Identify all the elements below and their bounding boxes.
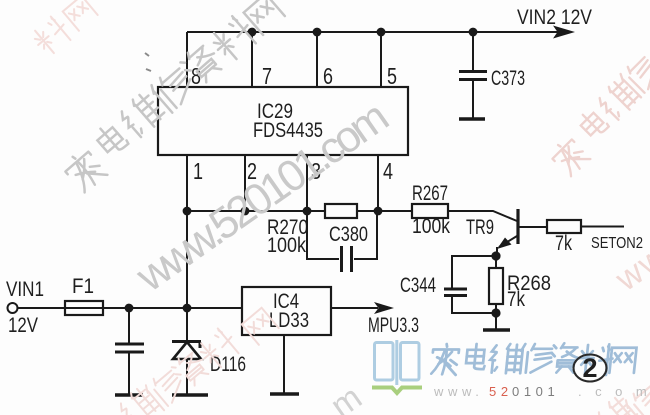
op IC29 FDS4435 box	[158, 87, 408, 155]
svg-text:R267: R267	[412, 182, 448, 205]
wire pin3 stub	[306, 155, 308, 211]
junction dot D116	[183, 304, 192, 313]
junction dot R268 bottom	[491, 308, 500, 317]
wire pin5 stub	[380, 32, 382, 87]
junction dot pin2/gate rail	[241, 207, 250, 216]
svg-text:100k: 100k	[267, 234, 306, 257]
svg-text:m: m	[324, 378, 369, 415]
junction dot input cap	[125, 304, 134, 313]
svg-text:VIN1: VIN1	[6, 278, 44, 301]
fuse F1	[65, 301, 103, 315]
ground IC4	[270, 392, 299, 396]
watermark gray text 家电维修资料网 diagonal top-left	[61, 0, 285, 194]
wire gate rail	[187, 210, 412, 212]
arrow VIN2	[553, 26, 575, 39]
junction dot pin4/gate rail	[374, 207, 383, 216]
svg-text:C380: C380	[329, 223, 368, 246]
logo book icon	[372, 340, 422, 393]
arrow MPU3.3	[374, 302, 394, 314]
wire pin8 stub	[186, 32, 188, 87]
wire VIN1 rail	[18, 307, 243, 309]
wire IC4 ground	[283, 335, 285, 393]
svg-text:7k: 7k	[507, 288, 525, 311]
watermark pink fragment top-left corner	[29, 0, 97, 58]
svg-text:7: 7	[262, 63, 272, 89]
wire 7k to SETON2	[581, 226, 624, 228]
ground R268	[483, 328, 510, 332]
logo url www.520101.com	[433, 384, 650, 399]
svg-text:5: 5	[387, 63, 397, 89]
wire R267 to TR9 base	[448, 211, 517, 221]
svg-text:MPU3.3: MPU3.3	[368, 314, 419, 337]
watermark pink text 维修资料网 diagonal bottom-left	[116, 308, 279, 415]
wire: top VIN2 bus	[187, 31, 560, 33]
resistor R270	[325, 204, 357, 218]
capacitor C380 with loop wires	[307, 211, 377, 272]
wire pin7 stub	[251, 32, 253, 87]
watermark pink text 家电维修 diagonal top-right	[548, 53, 650, 178]
junction dot pin6/bus	[313, 28, 322, 37]
wire R268 to ground	[495, 313, 497, 329]
svg-text:F1: F1	[72, 275, 94, 298]
ground C373	[459, 117, 485, 121]
watermark pink fragment bottom-right corner	[594, 381, 650, 415]
svg-text:1: 1	[193, 158, 203, 184]
svg-text:www.: www.	[433, 384, 483, 399]
junction dot pin3/gate rail	[303, 207, 312, 216]
resistor 7k (base)	[547, 220, 581, 233]
logo circled 2	[574, 353, 607, 383]
wire pin2 stub	[244, 155, 246, 211]
terminal VIN1	[8, 303, 18, 313]
svg-text:4: 4	[383, 158, 393, 184]
svg-text:0101: 0101	[512, 384, 559, 399]
junction dot pin7/bus	[248, 28, 257, 37]
svg-text:TR9: TR9	[466, 216, 494, 239]
junction dot pin1/gate rail	[183, 207, 192, 216]
junction dot TR9 emitter	[491, 251, 500, 260]
wire C344 bottom	[452, 296, 492, 313]
ground input cap	[115, 393, 143, 397]
wire pin6 stub	[316, 32, 318, 87]
junction dot C373/bus	[469, 28, 478, 37]
svg-text:2: 2	[582, 353, 597, 383]
capacitor C373	[459, 32, 487, 118]
svg-text:52: 52	[489, 384, 513, 399]
capacitor input (unlabeled)	[115, 308, 144, 394]
capacitor C344	[444, 289, 467, 296]
svg-text:12V: 12V	[8, 314, 38, 337]
zener diode D116	[172, 308, 201, 394]
transistor TR9	[497, 209, 547, 256]
junction dot pin5/bus	[377, 28, 386, 37]
wire IC4 output	[331, 307, 378, 309]
resistor R268	[489, 256, 503, 313]
svg-text:LD33: LD33	[269, 309, 309, 332]
svg-text:.com: .com	[578, 384, 650, 399]
ground D116	[172, 393, 208, 397]
logo text 家电维修资料网	[431, 343, 637, 375]
wire pin4 stub	[377, 155, 379, 211]
svg-text:VIN2 12V: VIN2 12V	[517, 6, 592, 29]
wire pin1 stub down to VIN1 rail	[186, 155, 188, 308]
svg-text:C344: C344	[400, 274, 436, 297]
svg-text:7k: 7k	[555, 232, 572, 255]
svg-text:6: 6	[323, 63, 333, 89]
resistor R267	[412, 204, 448, 218]
regulator IC4 LD33 box	[242, 287, 331, 335]
svg-text:C373: C373	[491, 67, 525, 90]
wire emitter to C344 top	[452, 256, 492, 288]
svg-text:100k: 100k	[412, 215, 450, 238]
speck marks	[145, 53, 151, 71]
